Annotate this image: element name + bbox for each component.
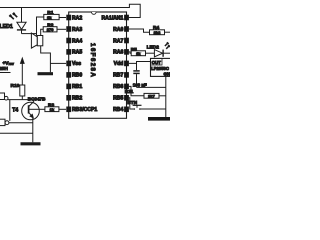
resistor R4: [150, 25, 171, 35]
wire RA0 to R4: [129, 29, 150, 32]
wire regulator GND down: [165, 76, 167, 117]
wire module pin2 to emitter: [9, 122, 33, 124]
resistor R11: [125, 89, 166, 99]
transistor T4 BC847B: [22, 100, 40, 143]
svg-text:1k: 1k: [47, 15, 52, 20]
svg-text:+Vrcv: +Vrcv: [3, 60, 14, 66]
svg-text:2k7: 2k7: [148, 94, 155, 99]
svg-text:RA4: RA4: [72, 38, 82, 44]
wire RA6 to R5: [129, 52, 131, 53]
button BTN: [133, 105, 166, 109]
svg-text:RA7: RA7: [113, 38, 123, 44]
wire R1 left drop: [37, 17, 44, 36]
wire top supply rail to RA1/AN1: [0, 4, 140, 17]
svg-text:25H: 25H: [0, 66, 8, 72]
wire speaker to ground / Vss: [41, 46, 51, 73]
resistor R1: [44, 10, 66, 20]
svg-text:RB6: RB6: [113, 84, 123, 90]
svg-text:2k2: 2k2: [154, 30, 161, 35]
resistor R3: [39, 102, 66, 112]
wire RB5 to button: [129, 98, 134, 109]
svg-text:16F628A: 16F628A: [89, 43, 96, 78]
node +Vrcv supply arrow: [21, 58, 25, 85]
IC pin labels left: [72, 15, 97, 113]
svg-text:Vss: Vss: [72, 61, 81, 67]
svg-text:1k: 1k: [50, 107, 55, 112]
wire module pin3 to ground rail: [0, 132, 33, 134]
op IC1 16F628A: [69, 12, 127, 118]
wire module pin2 drop: [9, 100, 11, 121]
svg-text:BTN: BTN: [127, 100, 137, 106]
svg-text:BC847B: BC847B: [28, 96, 46, 101]
svg-text:RA3: RA3: [72, 27, 82, 33]
wire module out / R10 / collector: [8, 99, 34, 101]
svg-text:RB5: RB5: [113, 96, 123, 102]
svg-text:RA0: RA0: [113, 27, 123, 33]
IC pin squares left: [66, 15, 71, 112]
svg-text:RB0: RB0: [72, 73, 82, 79]
svg-text:1k: 1k: [136, 51, 141, 56]
svg-text:RB3/CCP1: RB3/CCP1: [72, 107, 97, 113]
svg-text:RA2: RA2: [72, 15, 82, 21]
svg-text:OUT: OUT: [152, 60, 162, 65]
wire Vdd to regulator OUT: [129, 62, 151, 64]
speaker LS1: [31, 33, 42, 48]
svg-text:270: 270: [47, 27, 54, 32]
svg-text:RB2: RB2: [72, 96, 82, 102]
wire cap bottom to GND rail: [137, 86, 166, 88]
resistor R10: [11, 83, 25, 100]
svg-text:T4: T4: [12, 108, 18, 114]
wire Vss: [50, 62, 66, 64]
svg-text:RB7: RB7: [113, 73, 123, 79]
ground (emitter): [21, 142, 41, 145]
IC pin labels right: [102, 15, 124, 113]
resistor R5: [131, 47, 155, 56]
op-amp U2 regulator LP2950 box: [151, 58, 174, 76]
wire RB6 to R11: [129, 86, 144, 95]
svg-text:100 nF: 100 nF: [133, 82, 147, 87]
capacitor C 100nF: [133, 63, 139, 87]
svg-text:R11: R11: [125, 89, 134, 95]
svg-text:RA6: RA6: [113, 50, 123, 56]
svg-text:R10: R10: [11, 83, 20, 89]
svg-text:Vdd: Vdd: [114, 61, 124, 67]
svg-text:LED2: LED2: [147, 44, 160, 50]
svg-text:RA1/AN1: RA1/AN1: [102, 15, 124, 21]
ground (speaker): [38, 72, 54, 75]
ground rail bottom right (cut): [148, 117, 170, 121]
IR module (cut off at left edge): [0, 73, 11, 126]
LED2: [154, 43, 170, 57]
LED1: [10, 8, 27, 34]
svg-text:LP2950C: LP2950C: [151, 66, 169, 71]
IC pin squares right: [124, 15, 129, 112]
svg-text:RB1: RB1: [72, 84, 82, 90]
svg-text:LED1: LED1: [0, 24, 13, 30]
svg-text:GND: GND: [164, 71, 171, 76]
svg-text:RA5: RA5: [72, 50, 82, 56]
wire LED1 cathode node: [22, 33, 37, 35]
resistor R2: [41, 23, 66, 36]
svg-text:RB4: RB4: [113, 107, 123, 113]
